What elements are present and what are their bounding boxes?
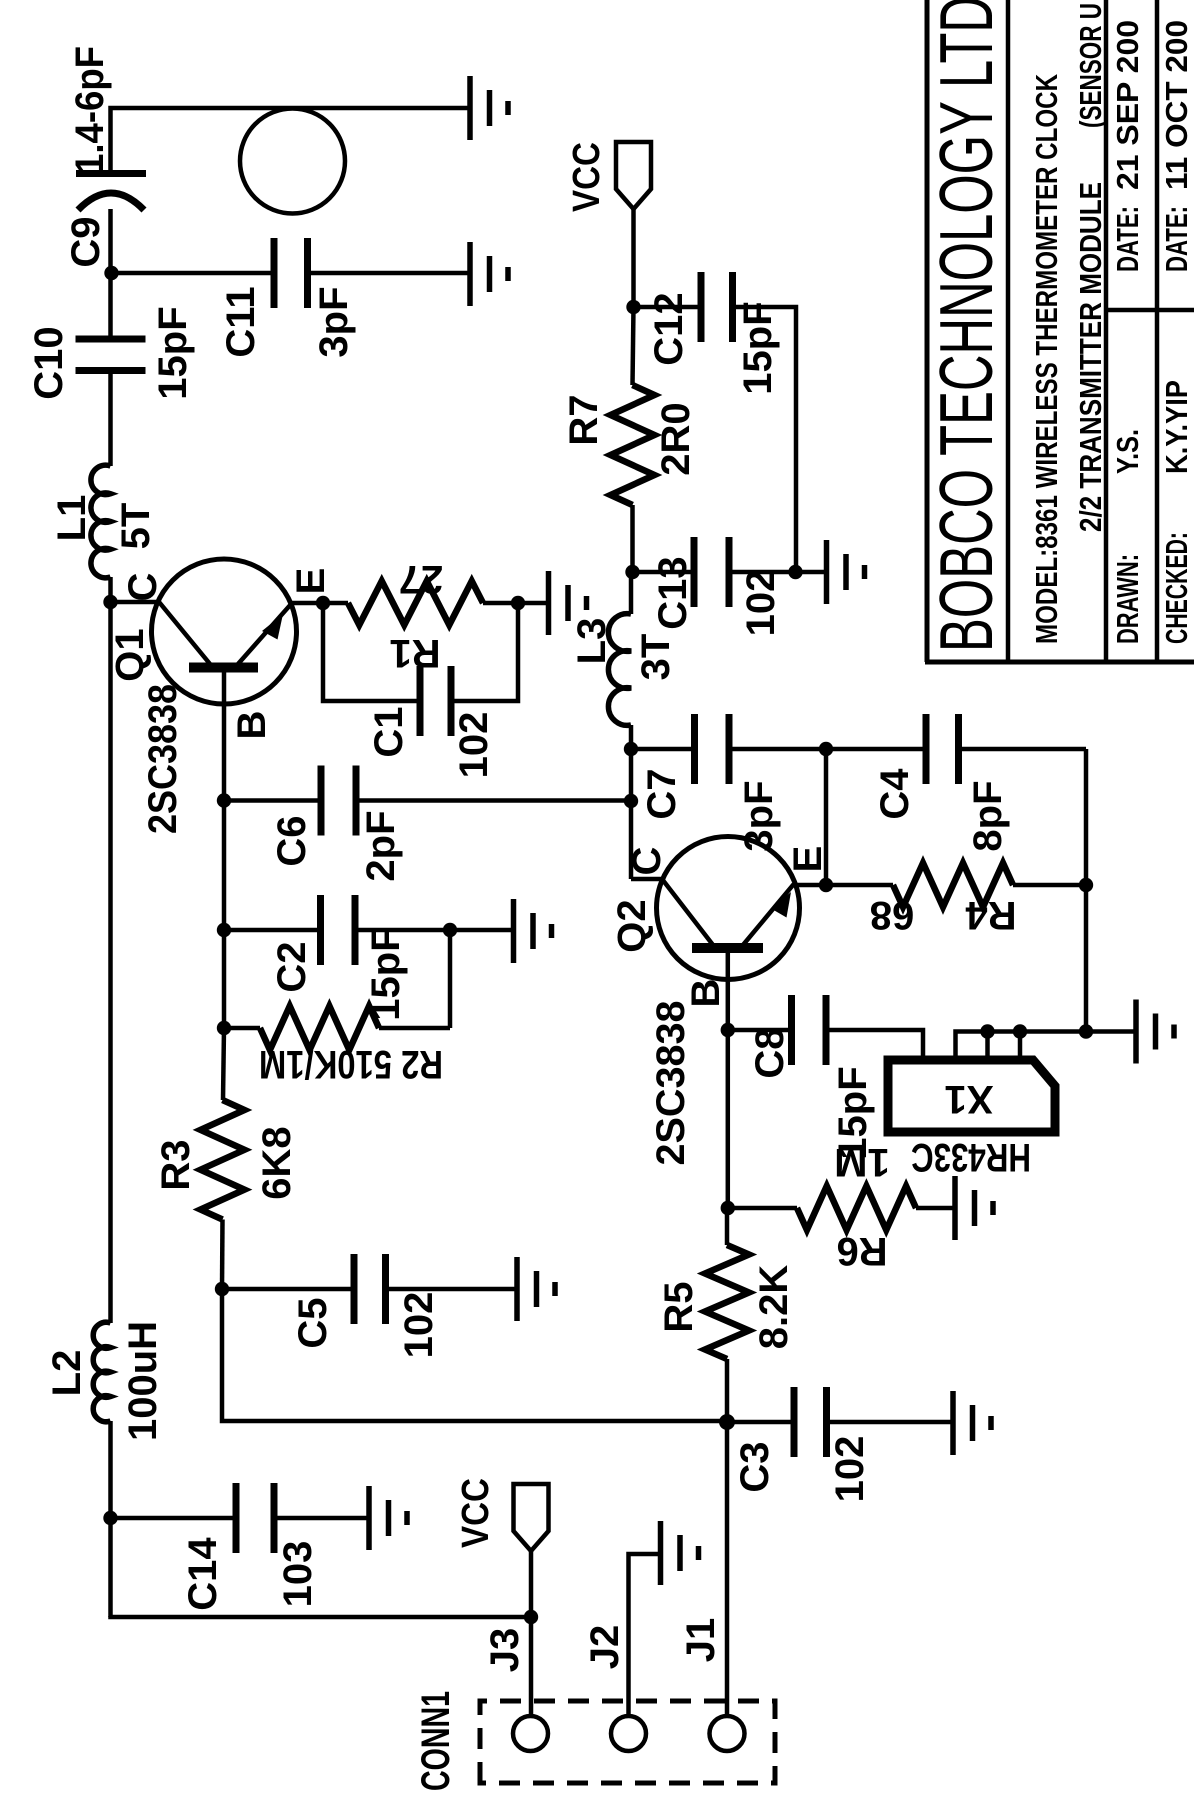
power flag VCC at J3 — [514, 1484, 549, 1551]
svg-text:102: 102 — [739, 570, 783, 637]
node R7 C12 VCC junction — [626, 300, 640, 314]
wire R2 bottom to C2 node — [448, 930, 453, 1028]
wire top rail from corner to L2 — [108, 1421, 113, 1617]
node crystal pin 4 — [1013, 1024, 1027, 1038]
wire C5 branch down — [222, 1287, 354, 1292]
wire C13 to ground node — [729, 570, 796, 575]
ground below C3 — [953, 1391, 991, 1455]
svg-text:2/2 TRANSMITTER MODULE: 2/2 TRANSMITTER MODULE — [1073, 182, 1108, 532]
capacitor C7 3pF — [695, 714, 730, 784]
svg-text:2SC3838: 2SC3838 — [649, 1001, 693, 1166]
resistor R5 8.2K — [705, 1245, 749, 1359]
wire left rail corner down to J3 node — [111, 1616, 532, 1617]
resistor R2 510K/1M — [260, 1006, 379, 1050]
wire C7 to emitter node — [729, 747, 826, 752]
capacitor C14 103 — [236, 1483, 274, 1553]
svg-text:L1: L1 — [50, 495, 94, 542]
svg-text:E: E — [289, 568, 333, 595]
capacitor C1 102 — [420, 666, 451, 736]
svg-text:2pF: 2pF — [359, 810, 403, 881]
wire R1 bottom lead — [483, 601, 518, 606]
wire R1 top lead — [323, 601, 348, 606]
wire C11 branch down from top rail — [111, 271, 275, 276]
svg-text:R2 510K/1M: R2 510K/1M — [259, 1042, 443, 1086]
wire VCC stub — [631, 209, 636, 307]
svg-text:DRAWN:: DRAWN: — [1110, 554, 1145, 644]
wire top rail L1 to C10 — [108, 371, 113, 466]
node crystal pin 3 — [980, 1024, 994, 1038]
wire crystal pin 4 stub — [1018, 1032, 1023, 1061]
wire R7 east lead — [633, 307, 634, 385]
svg-text:Q1: Q1 — [108, 628, 152, 681]
node R2 top junction — [217, 1021, 231, 1035]
svg-text:C2: C2 — [270, 941, 314, 992]
node bottom line west end — [1079, 1024, 1093, 1038]
svg-text:3pF: 3pF — [737, 780, 781, 851]
inductor L2 100uH — [93, 1322, 110, 1421]
svg-text:C12: C12 — [647, 292, 691, 365]
capacitor C4 8pF — [926, 714, 959, 784]
node Q1 collector junction on top rail — [103, 595, 117, 609]
wire C13 branch down — [633, 570, 695, 575]
wire C6 to Q1 base rail — [224, 798, 321, 803]
title block border — [925, 0, 1194, 662]
svg-text:2SC3838: 2SC3838 — [141, 684, 185, 834]
node Q1 emitter junction — [316, 596, 330, 610]
svg-text:C14: C14 — [181, 1537, 225, 1611]
node L3 R7 C13 junction — [625, 565, 639, 579]
svg-text:15pF: 15pF — [736, 301, 780, 394]
resistor R4 68 — [893, 863, 1013, 907]
svg-text:15pF: 15pF — [151, 306, 195, 399]
svg-text:R3: R3 — [154, 1139, 198, 1190]
capacitor C9 trimmer curved plate — [78, 193, 144, 210]
wire C13 node to ground — [796, 570, 827, 575]
wire C14 branch down — [111, 1516, 237, 1521]
inductor L1 5T — [91, 465, 111, 578]
wire C5 to ground — [386, 1287, 518, 1292]
ground top right corner — [470, 76, 508, 140]
wire R2 bottom lead — [379, 1026, 450, 1031]
svg-text:Q2: Q2 — [610, 899, 654, 952]
svg-text:CONN1: CONN1 — [414, 1691, 458, 1791]
wire R5 east lead — [725, 1208, 730, 1245]
node R4 bottom junction — [1079, 878, 1093, 892]
node Q2 emitter junction — [819, 878, 833, 892]
wire C2 branch down — [224, 928, 321, 933]
transistor Q2 2SC3838 circle — [657, 837, 800, 980]
svg-text:102: 102 — [397, 1292, 441, 1359]
svg-text:6K8: 6K8 — [255, 1126, 299, 1199]
node C2 R2 ground junction — [443, 923, 457, 937]
node J3 junction — [524, 1610, 538, 1624]
svg-text:R6: R6 — [836, 1229, 887, 1273]
wire C2 bottom to node — [355, 928, 450, 933]
wire emitter node to C7C4 node — [824, 749, 829, 885]
svg-text:102: 102 — [828, 1436, 872, 1503]
ground below R1 — [549, 571, 587, 635]
resistor R1 27 — [348, 581, 483, 625]
wire C4 branch — [826, 747, 926, 752]
svg-text:L3: L3 — [570, 618, 614, 665]
svg-text:5T: 5T — [114, 503, 158, 550]
transistor Q1 base bar — [189, 663, 258, 673]
wire C3 to ground — [827, 1420, 954, 1425]
power flag VCC at R7 — [616, 142, 651, 209]
svg-text:11 OCT 200: 11 OCT 200 — [1159, 20, 1194, 190]
svg-text:(SENSOR U: (SENSOR U — [1073, 3, 1108, 128]
connector pin circle J1 — [710, 1716, 745, 1751]
svg-text:8pF: 8pF — [966, 780, 1010, 851]
svg-text:C1: C1 — [367, 706, 411, 757]
wire crystal pin 3 stub — [985, 1032, 990, 1061]
wire Q2 collector rail — [629, 725, 634, 879]
capacitor C13 102 — [694, 537, 729, 607]
svg-text:15pF: 15pF — [831, 1066, 875, 1159]
resistor R6 1M — [797, 1186, 916, 1230]
svg-text:103: 103 — [276, 1541, 320, 1608]
transistor Q2 collector lead — [631, 879, 713, 945]
wire C8 to crystal pin 1 — [826, 1030, 923, 1060]
svg-text:K.Y.YIP: K.Y.YIP — [1159, 380, 1194, 474]
capacitor C12 15pF — [701, 272, 733, 342]
svg-text:BOBCO TECHNOLOGY LTD: BOBCO TECHNOLOGY LTD — [924, 0, 1008, 652]
wire C14 to ground — [274, 1516, 369, 1521]
svg-text:R7: R7 — [562, 394, 606, 445]
wire C3 branch down — [727, 1420, 794, 1425]
svg-text:C7: C7 — [640, 768, 684, 819]
svg-text:L2: L2 — [45, 1350, 89, 1397]
svg-text:X1: X1 — [945, 1077, 994, 1121]
node C6 bottom junction — [624, 794, 638, 808]
svg-text:8.2K: 8.2K — [752, 1265, 796, 1350]
svg-text:C13: C13 — [651, 556, 695, 629]
transistor Q2 base bar — [692, 943, 763, 953]
svg-text:27: 27 — [399, 557, 444, 601]
wire R2 top lead — [224, 1026, 260, 1031]
svg-text:R4: R4 — [965, 893, 1017, 937]
wire C12 branch down from VCC node — [634, 305, 702, 310]
svg-text:VCC: VCC — [455, 1478, 497, 1548]
node C13 C12 ground junction — [788, 565, 802, 579]
svg-text:HR433C: HR433C — [911, 1135, 1031, 1179]
resistor R7 2R0 — [611, 385, 655, 505]
wire J3 node to VCC flag — [529, 1551, 534, 1617]
wire R1 node to ground — [518, 601, 549, 606]
capacitor C11 3pF — [274, 238, 308, 308]
capacitor C8 15pF — [792, 995, 827, 1065]
wire C9 to top-right corner then down to ground — [111, 108, 471, 174]
wire C6 branch vertical — [356, 798, 631, 803]
node C11 junction — [104, 266, 118, 280]
node R3 C5 junction — [215, 1282, 229, 1296]
svg-text:3pF: 3pF — [312, 286, 356, 357]
connector pin circle J2 — [611, 1716, 646, 1751]
wire C1 west leg — [323, 603, 420, 701]
transistor Q2 emitter lead with arrow — [743, 885, 826, 945]
svg-text:R1: R1 — [389, 631, 440, 675]
svg-text:J3: J3 — [483, 1628, 527, 1673]
wire C10 to C9 with C11 junction — [108, 209, 113, 339]
wire J2 to ground — [629, 1554, 661, 1716]
svg-text:102: 102 — [452, 712, 496, 779]
crystal X1 HR433C body — [888, 1060, 1055, 1132]
node C6 top junction — [217, 793, 231, 807]
wire crystal ground net down — [1086, 1029, 1136, 1034]
transistor Q1 collector lead — [111, 602, 211, 664]
trimmer adjustment circle — [240, 109, 345, 214]
svg-text:J2: J2 — [583, 1625, 627, 1670]
svg-text:B: B — [684, 979, 728, 1008]
wire C12 to corner and west to C13 node — [733, 307, 797, 572]
svg-text:VCC: VCC — [566, 142, 608, 212]
wire R5 west lead — [725, 1359, 730, 1422]
svg-text:C6: C6 — [270, 815, 314, 866]
svg-text:DATE:: DATE: — [1159, 206, 1194, 272]
wire R3 to C5 node — [220, 1220, 225, 1290]
capacitor C3 102 — [794, 1387, 827, 1457]
capacitor C5 102 — [354, 1254, 386, 1324]
svg-text:CHECKED:: CHECKED: — [1159, 532, 1194, 644]
svg-text:C11: C11 — [219, 286, 263, 357]
svg-text:E: E — [786, 846, 830, 873]
wire L3 to R7 node — [629, 572, 634, 614]
ground below C2 — [514, 899, 552, 963]
wire C4 to corner and west to bottom line — [959, 747, 1087, 752]
inductor L3 3T — [608, 614, 631, 726]
node C7 top junction — [624, 742, 638, 756]
node R1 C1 ground junction — [511, 596, 525, 610]
ground below C11 — [470, 242, 508, 306]
wire R5 node to Q2 base node — [726, 1030, 731, 1208]
wire crystal pin 2 to ground net — [956, 1032, 1087, 1061]
connector pin circle J3 — [513, 1716, 548, 1751]
svg-text:DATE:: DATE: — [1110, 206, 1145, 272]
wire Q1 base lead and rail west — [222, 668, 227, 1029]
svg-text:68: 68 — [870, 893, 915, 937]
wire J1 to C3 node — [725, 1422, 730, 1716]
capacitor C6 2pF — [321, 766, 356, 836]
node C14 junction on top rail — [103, 1511, 117, 1525]
ground below C5 — [517, 1257, 555, 1321]
wire J3 node to connector pin J3 — [529, 1617, 534, 1716]
wire R6 to ground — [916, 1206, 955, 1211]
node Q2 base junction — [721, 1023, 735, 1037]
svg-text:C4: C4 — [873, 768, 917, 820]
svg-text:Y.S.: Y.S. — [1110, 429, 1145, 474]
svg-text:C3: C3 — [733, 1441, 777, 1492]
wire R6 top lead — [728, 1206, 797, 1211]
ground below C13 — [827, 540, 865, 604]
svg-text:MODEL:8361 WIRELESS THERMOMETE: MODEL:8361 WIRELESS THERMOMETER CLOCK — [1029, 74, 1064, 644]
wire base rail to R3 — [223, 1028, 224, 1100]
node R5 R6 junction — [721, 1201, 735, 1215]
ground below R6 — [955, 1176, 993, 1240]
ground J2 — [661, 1521, 699, 1585]
wire C11 to ground — [308, 271, 471, 276]
svg-text:21 SEP 200: 21 SEP 200 — [1110, 20, 1145, 190]
svg-text:C9: C9 — [64, 216, 108, 267]
node C3 R5 J1 junction — [719, 1414, 735, 1430]
node C7 C4 junction — [819, 742, 833, 756]
svg-text:J1: J1 — [679, 1618, 723, 1663]
wire top rail L2 to L1 — [108, 577, 113, 1323]
wire C8 branch down from Q2 base — [728, 1028, 792, 1033]
wire Q2 base lead — [726, 948, 731, 1030]
svg-text:2R0: 2R0 — [654, 402, 698, 475]
wire C5 node west and down to Q2 stage — [222, 1289, 727, 1421]
svg-text:3T: 3T — [634, 634, 678, 681]
svg-text:B: B — [230, 711, 274, 740]
capacitor C2 15pF — [321, 895, 356, 965]
svg-text:100uH: 100uH — [121, 1321, 165, 1441]
ground below crystal net — [1136, 1000, 1174, 1064]
transistor Q1 emitter lead with arrow — [238, 603, 323, 664]
node C2 top junction — [217, 923, 231, 937]
transistor Q1 2SC3838 circle — [152, 559, 297, 704]
capacitor C9 trimmer straight plate — [76, 170, 146, 177]
wire R7 west lead — [630, 505, 635, 572]
svg-text:C8: C8 — [748, 1027, 792, 1078]
capacitor C10 15pF — [76, 339, 146, 371]
svg-text:R5: R5 — [657, 1281, 701, 1332]
svg-text:C: C — [121, 573, 165, 602]
svg-text:C5: C5 — [291, 1297, 335, 1348]
svg-text:1.4-6pF: 1.4-6pF — [68, 46, 112, 174]
wire C1 east leg — [451, 603, 518, 701]
wire C2 node to ground — [450, 928, 514, 933]
svg-text:C10: C10 — [27, 326, 71, 399]
wire bottom line from crystal net to C4 corner — [1084, 749, 1089, 1032]
ground below C14 — [369, 1486, 407, 1550]
wire C7 branch — [631, 747, 695, 752]
resistor R3 6K8 — [201, 1100, 245, 1220]
connector CONN1 dashed outline — [480, 1701, 775, 1783]
